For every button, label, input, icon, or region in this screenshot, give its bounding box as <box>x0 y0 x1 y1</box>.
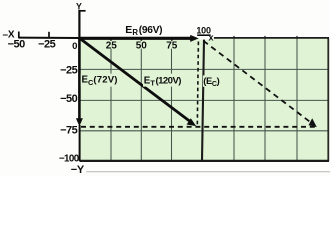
grid bottom border <box>80 160 330 162</box>
vector ET resultant <box>80 39 190 122</box>
vector ET arrowhead <box>187 118 197 126</box>
tick under 100 label <box>197 34 211 36</box>
dashed diagonal arrowhead <box>309 118 317 127</box>
svg-text:ER(96V): ER(96V) <box>125 24 162 37</box>
heavy vertical line at 100 <box>202 40 204 162</box>
y axis upper segment <box>78 10 80 39</box>
horizontal grid line -75 <box>80 130 329 132</box>
svg-text:−25: −25 <box>38 38 56 50</box>
svg-text:−100: −100 <box>59 154 80 165</box>
svg-text:75: 75 <box>166 41 178 52</box>
svg-text:−50: −50 <box>60 93 78 105</box>
svg-text:−50: −50 <box>8 38 26 50</box>
scan artifact faint line <box>86 171 330 173</box>
vector EC arrowhead <box>76 118 83 126</box>
vector ER along x axis <box>80 37 192 40</box>
svg-text:Y: Y <box>76 1 82 11</box>
grid right border <box>327 38 329 161</box>
svg-text:0: 0 <box>72 41 77 52</box>
graph paper green area <box>80 38 329 161</box>
y axis top tick <box>79 10 85 12</box>
dashed vertical projection at 96 <box>197 42 198 128</box>
vertical grid line 25 <box>110 38 112 161</box>
svg-text:−Y: −Y <box>71 164 85 176</box>
vertical grid line 150 <box>264 38 266 161</box>
ticks below axis at 25 50 75 <box>110 39 112 42</box>
x axis -25 tick <box>48 32 50 38</box>
y axis lower border segment <box>79 125 81 161</box>
vertical grid line 75 <box>171 38 173 161</box>
dashed diagonal phasor copy <box>203 41 310 122</box>
grid line nubs above top border <box>233 36 235 39</box>
horizontal grid line -25 <box>80 68 329 70</box>
white gap on axis right of ER arrow <box>199 36 214 39</box>
svg-text:−25: −25 <box>60 65 78 77</box>
vertical grid line 175 <box>296 38 298 161</box>
x axis left end tick <box>18 32 20 39</box>
x axis negative segment <box>19 37 81 39</box>
svg-text:25: 25 <box>106 41 118 52</box>
svg-text:EC(72V): EC(72V) <box>82 75 118 87</box>
vector ER arrowhead <box>190 35 199 42</box>
dashed horizontal projection at -72 <box>81 126 318 128</box>
svg-text:ET(120V): ET(120V) <box>144 75 182 87</box>
svg-text:−75: −75 <box>60 125 78 137</box>
svg-text:x: x <box>208 33 213 43</box>
vector EC along -y axis <box>78 38 81 119</box>
label backing patches on green <box>105 41 119 49</box>
grid top border (x axis continuation) <box>214 37 329 39</box>
vertical grid line 125 <box>233 38 235 161</box>
vertical grid line 50 <box>140 38 142 161</box>
horizontal grid line -50 <box>80 99 329 101</box>
svg-text:50: 50 <box>136 41 148 52</box>
